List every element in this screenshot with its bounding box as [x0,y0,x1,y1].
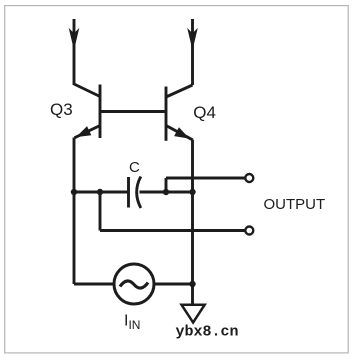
wire: capacitor left lead [74,191,129,194]
node: junction at right rail / cap lead [189,189,195,195]
wire: branch down from left cap node [99,192,102,231]
node: junction at left rail / cap lead [71,189,77,195]
ground [182,305,205,323]
wire: right rail (Q4 emitter down to ground) [191,140,194,305]
svg-text:Q4: Q4 [193,103,216,122]
wire: step up from cap right node [165,178,168,192]
current arrow (down) on top-left wire [70,30,79,49]
node: junction branch to upper output [163,189,169,195]
wire: base connection Q3-Q4 [100,110,166,113]
capacitor C [129,177,141,209]
svg-text:OUTPUT: OUTPUT [264,196,326,213]
wire: current source to right rail [154,283,193,286]
terminal: lower output circle [245,227,253,235]
node: junction branch to lower output [97,189,103,195]
current arrow (down) on top-right wire [188,30,197,49]
node: junction at right rail / source lead [189,281,195,287]
svg-text:ybx8.cn: ybx8.cn [176,324,239,341]
wire: top-left supply into Q3 collector [73,19,76,85]
terminal: upper output circle [245,174,253,182]
current source I_IN [114,264,154,304]
transistor Q4 [166,85,193,141]
wire: lower output line [100,229,246,232]
wire: upper output line [166,177,246,180]
svg-text:C: C [129,159,140,176]
wire: capacitor right lead [140,191,193,194]
svg-text:Q3: Q3 [50,100,73,119]
wire: left rail (Q3 emitter down) [73,138,76,285]
transistor Q3 [74,84,100,138]
wire: bottom-left lead to current source [74,283,114,286]
wire: top-right supply into Q4 collector [191,19,194,85]
